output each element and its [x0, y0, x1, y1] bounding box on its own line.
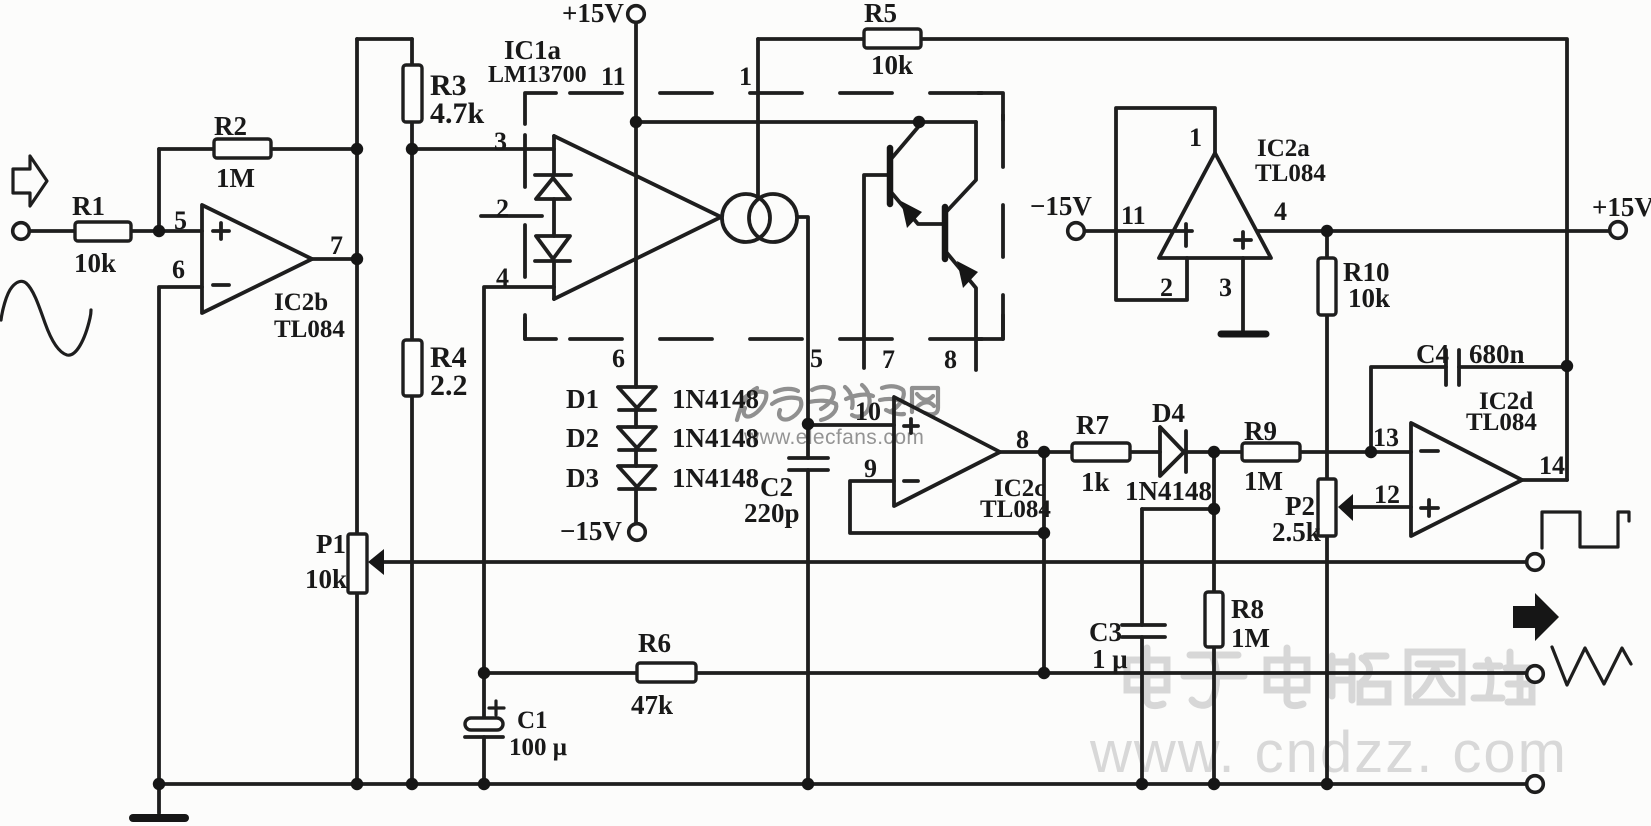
- svg-text:2.5k: 2.5k: [1272, 517, 1321, 547]
- svg-text:5: 5: [174, 206, 187, 235]
- svg-text:1M: 1M: [1244, 466, 1283, 496]
- svg-text:10k: 10k: [871, 50, 913, 80]
- svg-text:D1: D1: [566, 384, 599, 414]
- svg-text:IC2a: IC2a: [1257, 135, 1310, 162]
- svg-text:TL084: TL084: [1255, 160, 1326, 187]
- svg-text:11: 11: [601, 62, 626, 91]
- svg-text:1N4148: 1N4148: [672, 463, 759, 493]
- svg-text:C1: C1: [517, 707, 548, 734]
- svg-text:10k: 10k: [305, 564, 347, 594]
- svg-text:IC1a: IC1a: [504, 35, 562, 65]
- svg-text:D4: D4: [1152, 398, 1185, 428]
- svg-text:1k: 1k: [1081, 467, 1110, 497]
- svg-text:12: 12: [1374, 480, 1400, 509]
- svg-text:D3: D3: [566, 463, 599, 493]
- svg-text:10: 10: [855, 397, 881, 426]
- svg-text:1: 1: [1189, 123, 1202, 152]
- svg-text:D2: D2: [566, 423, 599, 453]
- svg-text:LM13700: LM13700: [488, 62, 587, 88]
- svg-text:4: 4: [1274, 197, 1287, 226]
- svg-text:1N4148: 1N4148: [672, 384, 759, 414]
- svg-text:14: 14: [1539, 451, 1565, 480]
- svg-text:R5: R5: [864, 0, 897, 28]
- svg-text:1M: 1M: [216, 163, 255, 193]
- svg-text:R6: R6: [638, 628, 671, 658]
- svg-text:4: 4: [496, 263, 509, 292]
- svg-text:C4: C4: [1416, 339, 1449, 369]
- svg-text:5: 5: [810, 344, 823, 373]
- svg-text:www.elecfans.com: www.elecfans.com: [743, 426, 924, 449]
- svg-text:7: 7: [882, 345, 895, 374]
- svg-text:4.7k: 4.7k: [430, 97, 485, 130]
- svg-text:8: 8: [1016, 425, 1029, 454]
- svg-text:P1: P1: [316, 529, 346, 559]
- svg-text:13: 13: [1373, 423, 1399, 452]
- svg-text:R8: R8: [1231, 594, 1264, 624]
- svg-text:3: 3: [1219, 273, 1232, 302]
- svg-text:+15V: +15V: [562, 0, 624, 28]
- svg-text:220p: 220p: [744, 498, 800, 528]
- svg-text:2: 2: [1160, 273, 1173, 302]
- svg-text:TL084: TL084: [1466, 409, 1537, 436]
- svg-text:1M: 1M: [1231, 623, 1270, 653]
- svg-text:R9: R9: [1244, 416, 1277, 446]
- svg-text:2.2: 2.2: [430, 369, 468, 402]
- svg-text:IC2b: IC2b: [274, 289, 328, 316]
- svg-text:100 μ: 100 μ: [509, 734, 567, 761]
- svg-text:7: 7: [330, 231, 343, 260]
- svg-text:9: 9: [864, 454, 877, 483]
- svg-text:6: 6: [612, 344, 625, 373]
- svg-text:1: 1: [739, 62, 752, 91]
- svg-text:11: 11: [1121, 201, 1146, 230]
- svg-text:1 μ: 1 μ: [1092, 644, 1128, 674]
- svg-text:47k: 47k: [631, 690, 673, 720]
- svg-text:10k: 10k: [1348, 283, 1390, 313]
- svg-text:1N4148: 1N4148: [1125, 476, 1212, 506]
- svg-text:8: 8: [944, 345, 957, 374]
- svg-text:−15V: −15V: [560, 516, 622, 546]
- svg-text:680n: 680n: [1469, 339, 1525, 369]
- svg-text:6: 6: [172, 255, 185, 284]
- svg-text:R2: R2: [214, 111, 247, 141]
- svg-text:C3: C3: [1089, 617, 1122, 647]
- svg-text:+15V: +15V: [1592, 192, 1651, 222]
- svg-text:−15V: −15V: [1030, 191, 1092, 221]
- svg-text:2: 2: [496, 194, 509, 223]
- svg-text:10k: 10k: [74, 248, 116, 278]
- svg-text:TL084: TL084: [980, 496, 1051, 523]
- svg-text:R7: R7: [1076, 410, 1109, 440]
- svg-text:R1: R1: [72, 191, 105, 221]
- svg-text:3: 3: [494, 127, 507, 156]
- svg-text:TL084: TL084: [274, 316, 345, 343]
- svg-text:1N4148: 1N4148: [672, 423, 759, 453]
